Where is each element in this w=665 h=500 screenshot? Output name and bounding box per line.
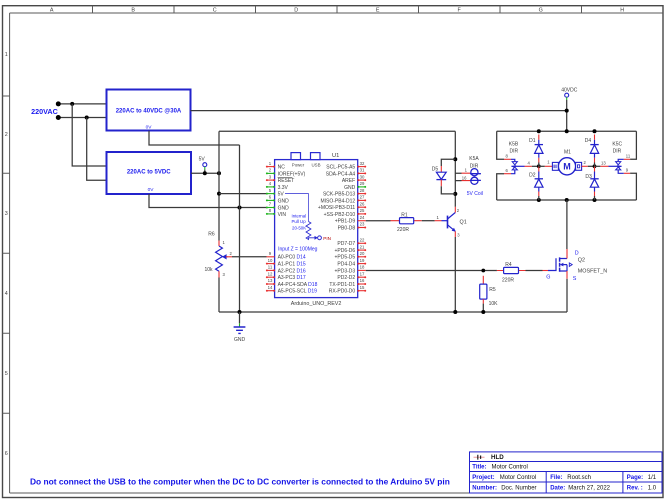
svg-text:+MOSI-PB3-D11: +MOSI-PB3-D11 bbox=[318, 205, 355, 211]
svg-text:23: 23 bbox=[360, 222, 365, 227]
wire bridge right edge upper bbox=[630, 131, 636, 159]
svg-text:D: D bbox=[575, 250, 579, 256]
svg-text:3.3V: 3.3V bbox=[278, 185, 289, 191]
svg-text:10k: 10k bbox=[204, 267, 213, 273]
U1 right pin numbers upper bbox=[360, 161, 365, 227]
svg-text:31: 31 bbox=[360, 168, 365, 173]
junction bottom rail center bbox=[565, 198, 569, 202]
svg-text:PIN: PIN bbox=[323, 236, 331, 241]
wire bridge left edge upper bbox=[497, 131, 504, 159]
svg-text:K5B: K5B bbox=[509, 142, 519, 148]
wire K5B common to bridge mid-left bbox=[532, 165, 539, 167]
svg-text:D4: D4 bbox=[585, 138, 592, 144]
svg-text:13: 13 bbox=[268, 278, 273, 283]
svg-text:26: 26 bbox=[360, 201, 365, 206]
svg-text:DIR: DIR bbox=[509, 149, 518, 155]
svg-text:D2: D2 bbox=[529, 173, 536, 179]
svg-text:IOREF(+5V): IOREF(+5V) bbox=[278, 171, 306, 177]
svg-text:A5-PC5-SCL D19: A5-PC5-SCL D19 bbox=[278, 289, 318, 295]
svg-text:20-50K: 20-50K bbox=[292, 226, 306, 231]
svg-text:A1-PC1 D15: A1-PC1 D15 bbox=[278, 262, 306, 268]
wire 220VAC line bottom bbox=[58, 117, 106, 119]
svg-text:Doc. Number: Doc. Number bbox=[501, 486, 536, 492]
svg-text:G: G bbox=[539, 7, 543, 13]
svg-text:SCL-PC5-A5: SCL-PC5-A5 bbox=[326, 165, 355, 171]
svg-text:11: 11 bbox=[626, 154, 631, 159]
resistor R1 220R bbox=[391, 212, 422, 233]
node terminal dot L2 bbox=[56, 115, 61, 120]
diode D1 bbox=[529, 135, 543, 167]
U1 right pin stubs rows 1-10 bbox=[358, 167, 366, 228]
junction emitter at gnd rail bbox=[453, 310, 457, 314]
svg-text:11: 11 bbox=[268, 265, 273, 270]
svg-text:+PD6-D6: +PD6-D6 bbox=[334, 248, 355, 254]
junction top rail 40VDC bbox=[565, 129, 569, 133]
junction on bottom line bbox=[85, 116, 89, 120]
svg-text:K5A: K5A bbox=[469, 156, 479, 162]
wire pin18 to R4 bbox=[366, 270, 497, 272]
svg-text:A3-PC3 D17: A3-PC3 D17 bbox=[278, 275, 306, 281]
junction bottom rail D2 bbox=[537, 198, 541, 202]
relay coil K5A bbox=[455, 156, 483, 197]
svg-text:S: S bbox=[573, 276, 577, 282]
svg-text:5: 5 bbox=[5, 371, 8, 377]
diode D4 bbox=[585, 135, 599, 167]
U1 left pin numbers 1-8 bbox=[269, 161, 272, 213]
svg-text:E: E bbox=[376, 7, 380, 13]
svg-text:K5C: K5C bbox=[612, 142, 622, 148]
svg-text:PD7-D7: PD7-D7 bbox=[337, 241, 355, 247]
svg-text:D5: D5 bbox=[432, 167, 439, 173]
svg-text:R5: R5 bbox=[489, 287, 496, 293]
power port 5V bbox=[199, 157, 207, 174]
svg-text:32: 32 bbox=[360, 161, 365, 166]
svg-text:Page:: Page: bbox=[627, 475, 643, 481]
wire Q1 collector bbox=[454, 194, 456, 207]
U1 left pin names bbox=[278, 165, 306, 218]
svg-text:File:: File: bbox=[550, 475, 562, 481]
svg-text:R6: R6 bbox=[208, 232, 215, 238]
title block logo bbox=[474, 455, 485, 460]
svg-text:Do not connect the USB to the: Do not connect the USB to the computer w… bbox=[30, 476, 450, 486]
U1 left pin stubs 9-14 bbox=[267, 257, 275, 291]
junction top rail D4 bbox=[593, 129, 597, 133]
svg-text:+PB1-D9: +PB1-D9 bbox=[335, 219, 356, 225]
svg-text:GND: GND bbox=[344, 185, 356, 191]
motor M1 bbox=[539, 150, 595, 175]
svg-text:220R: 220R bbox=[502, 277, 514, 283]
svg-text:20: 20 bbox=[360, 251, 365, 256]
svg-text:15: 15 bbox=[360, 285, 365, 290]
relay contact K5C bbox=[595, 142, 631, 174]
svg-text:25: 25 bbox=[360, 208, 365, 213]
svg-text:Q2: Q2 bbox=[578, 257, 585, 263]
title block bbox=[470, 452, 663, 493]
svg-text:A0-PC0 D14: A0-PC0 D14 bbox=[278, 255, 306, 261]
svg-text:PB0-D8: PB0-D8 bbox=[338, 225, 356, 231]
svg-text:H: H bbox=[620, 7, 624, 13]
svg-text:0V: 0V bbox=[148, 187, 155, 193]
wire R4 to Q2 gate bbox=[526, 270, 543, 272]
U1 left pin stubs 1-8 bbox=[267, 167, 275, 214]
converter box2 220AC to 5VDC bbox=[107, 152, 192, 194]
svg-text:220R: 220R bbox=[397, 227, 409, 233]
svg-text:Motor Control: Motor Control bbox=[500, 475, 536, 481]
svg-text:Number:: Number: bbox=[472, 486, 497, 492]
junction on top line bbox=[70, 102, 74, 106]
wire box2 0V to arduino gnd rail bbox=[149, 194, 267, 208]
wire bridge center down to Q2 drain bbox=[566, 200, 568, 249]
svg-text:18: 18 bbox=[360, 265, 365, 270]
mosfet Q2 bbox=[546, 249, 607, 312]
svg-text:22: 22 bbox=[360, 238, 365, 243]
wire box1 40VDC output bbox=[191, 110, 567, 112]
svg-text:4: 4 bbox=[5, 291, 8, 297]
svg-text:16: 16 bbox=[462, 175, 467, 180]
resistor R4 220R bbox=[497, 262, 526, 283]
svg-text:HLD: HLD bbox=[491, 454, 504, 461]
wire 220VAC line top bbox=[58, 103, 106, 105]
svg-text:GND: GND bbox=[278, 198, 290, 204]
svg-text:1: 1 bbox=[5, 52, 8, 58]
svg-text:3: 3 bbox=[5, 211, 8, 217]
relay contact K5B bbox=[504, 142, 532, 174]
svg-text:A2-PC2 D16: A2-PC2 D16 bbox=[278, 268, 306, 274]
svg-text:M1: M1 bbox=[564, 150, 571, 156]
wire pot wiper to arduino A0 bbox=[232, 256, 267, 258]
junction relay node top bbox=[453, 157, 457, 161]
svg-text:C: C bbox=[213, 7, 217, 13]
wire Q1 emitter to gnd rail bbox=[454, 231, 456, 237]
wire drop to box2 input2 bbox=[87, 118, 107, 181]
title block text row2 bbox=[472, 465, 528, 471]
junction 5V bus pin5 branch bbox=[217, 192, 221, 196]
svg-text:GND: GND bbox=[278, 205, 290, 211]
svg-text:A4-PC4-SDA D18: A4-PC4-SDA D18 bbox=[278, 282, 318, 288]
svg-text:SDA-PC4-A4: SDA-PC4-A4 bbox=[326, 171, 356, 177]
svg-text:RX-PD0-D0: RX-PD0-D0 bbox=[329, 289, 356, 295]
diode D3 bbox=[585, 166, 598, 200]
svg-text:Power: Power bbox=[292, 162, 305, 167]
svg-text:27: 27 bbox=[360, 195, 365, 200]
svg-text:R1: R1 bbox=[401, 212, 408, 218]
junction mid-right node bbox=[593, 164, 597, 168]
diode D2 bbox=[529, 166, 543, 200]
wire bridge bottom rail bbox=[497, 199, 637, 201]
svg-text:VIN: VIN bbox=[278, 212, 287, 218]
svg-text:0V: 0V bbox=[146, 125, 153, 131]
svg-text:12: 12 bbox=[268, 271, 273, 276]
svg-text:30: 30 bbox=[360, 174, 365, 179]
resistor R5 10K bbox=[480, 276, 498, 312]
svg-text:DIR: DIR bbox=[613, 149, 622, 155]
svg-text:+PD3-D3: +PD3-D3 bbox=[334, 268, 355, 274]
wire bridge top rail bbox=[497, 130, 637, 132]
svg-text:1/1: 1/1 bbox=[648, 475, 657, 481]
power port 40VDC bbox=[561, 88, 578, 132]
svg-text:1.0: 1.0 bbox=[648, 486, 657, 492]
U1 internal pull-up annotation bbox=[285, 194, 331, 241]
U1 right pin stubs lower rows 22-15 bbox=[358, 243, 366, 290]
svg-text:TX-PD1-D1: TX-PD1-D1 bbox=[329, 282, 355, 288]
junction 5V stem bbox=[203, 171, 207, 175]
ground symbol bbox=[234, 312, 246, 343]
svg-text:220AC to 40VDC @30A: 220AC to 40VDC @30A bbox=[116, 109, 182, 115]
svg-text:Title:: Title: bbox=[472, 465, 486, 471]
svg-text:NC: NC bbox=[278, 165, 286, 171]
svg-text:13: 13 bbox=[601, 160, 606, 165]
svg-text:A: A bbox=[50, 7, 54, 13]
svg-text:M: M bbox=[563, 162, 571, 172]
U1 right pin names upper bbox=[318, 165, 356, 232]
junction 40VDC at box1 output bbox=[565, 109, 569, 113]
junction bottom rail D3 bbox=[593, 198, 597, 202]
svg-text:R4: R4 bbox=[505, 262, 512, 268]
svg-text:19: 19 bbox=[360, 258, 365, 263]
junction R5 branch bbox=[481, 269, 485, 273]
potentiometer R6 bbox=[204, 232, 232, 312]
title block text row4 bbox=[472, 486, 657, 492]
U1 left pin dots bbox=[266, 166, 275, 182]
wire bridge right edge lower bbox=[630, 173, 636, 200]
svg-text:21: 21 bbox=[360, 244, 365, 249]
svg-text:USB: USB bbox=[311, 162, 320, 167]
svg-text:AREF: AREF bbox=[342, 178, 355, 184]
svg-text:5V: 5V bbox=[199, 157, 206, 163]
svg-text:16: 16 bbox=[360, 278, 365, 283]
svg-text:D1: D1 bbox=[529, 138, 536, 144]
svg-text:PD2-D2: PD2-D2 bbox=[337, 275, 355, 281]
wire gnd rail bottom bbox=[219, 311, 567, 313]
wire pin24 to R1 bbox=[366, 220, 391, 222]
junction relay node bottom bbox=[453, 192, 457, 196]
svg-text:24: 24 bbox=[360, 215, 365, 220]
junction 5V bus bbox=[217, 171, 221, 175]
svg-text:B: B bbox=[131, 7, 135, 13]
junction R5 at gnd rail bbox=[481, 310, 485, 314]
svg-text:10: 10 bbox=[268, 258, 273, 263]
svg-text:17: 17 bbox=[360, 271, 365, 276]
wire box2 5V output bbox=[191, 172, 219, 174]
title block text row3 bbox=[472, 475, 657, 481]
svg-text:Internal: Internal bbox=[292, 213, 307, 218]
svg-text:G: G bbox=[546, 275, 550, 281]
svg-text:PD4-D4: PD4-D4 bbox=[337, 262, 355, 268]
svg-text:10K: 10K bbox=[489, 301, 499, 307]
svg-text:2: 2 bbox=[5, 132, 8, 138]
svg-text:D: D bbox=[294, 7, 298, 13]
svg-text:5V: 5V bbox=[278, 192, 285, 198]
svg-text:SCK-PB5-D13: SCK-PB5-D13 bbox=[323, 192, 355, 198]
svg-text:+SS-PB2-D10: +SS-PB2-D10 bbox=[324, 212, 356, 218]
svg-text:220VAC: 220VAC bbox=[31, 107, 58, 116]
svg-text:+PD5-D5: +PD5-D5 bbox=[334, 255, 355, 261]
svg-text:Date:: Date: bbox=[550, 486, 565, 492]
svg-text:28: 28 bbox=[360, 188, 365, 193]
svg-text:MOSFET_N: MOSFET_N bbox=[578, 268, 607, 274]
RESET overline bbox=[278, 176, 293, 178]
svg-text:GND: GND bbox=[234, 337, 246, 343]
svg-text:Q1: Q1 bbox=[460, 219, 467, 225]
svg-text:U1: U1 bbox=[332, 153, 339, 159]
wire gnd drop vertical bbox=[239, 145, 241, 312]
svg-text:Root.sch: Root.sch bbox=[567, 475, 591, 481]
svg-text:220AC to 5VDC: 220AC to 5VDC bbox=[127, 170, 171, 176]
svg-text:Pull Up: Pull Up bbox=[292, 219, 307, 224]
svg-text:14: 14 bbox=[268, 285, 273, 290]
transistor Q1 bbox=[442, 208, 467, 238]
wire R1 to Q1 base bbox=[422, 220, 435, 222]
svg-text:Rev. :: Rev. : bbox=[627, 486, 643, 492]
wire drop to box2 input1 bbox=[72, 104, 106, 166]
svg-text:6: 6 bbox=[5, 451, 8, 457]
junction gnd drop bbox=[238, 206, 242, 210]
junction mid-left node bbox=[537, 164, 541, 168]
junction top rail D1 bbox=[537, 129, 541, 133]
op-amp substitute: Arduino U1 body bbox=[275, 153, 358, 308]
wire bridge left edge lower bbox=[497, 174, 504, 200]
junction gnd rail at drop bbox=[238, 310, 242, 314]
diode D5 bbox=[432, 159, 456, 194]
wire relay node vertical bbox=[454, 131, 456, 194]
wire 5V bus vertical bbox=[218, 131, 220, 240]
node terminal dot L1 bbox=[56, 101, 61, 106]
svg-text:RESET: RESET bbox=[278, 178, 295, 184]
svg-text:Arduino_UNO_REV2: Arduino_UNO_REV2 bbox=[291, 301, 342, 307]
svg-text:5V Coil: 5V Coil bbox=[467, 191, 483, 197]
svg-text:Input Z = 100Meg: Input Z = 100Meg bbox=[278, 246, 318, 252]
svg-text:40VDC: 40VDC bbox=[561, 88, 578, 94]
wire 5V to relay coil run bbox=[219, 130, 455, 132]
svg-text:Project:: Project: bbox=[472, 475, 494, 481]
wire 5V to arduino pin5 bbox=[219, 193, 267, 195]
svg-text:29: 29 bbox=[360, 181, 365, 186]
svg-text:MISO-PB4-D12: MISO-PB4-D12 bbox=[320, 198, 355, 204]
U1 analog pin names bbox=[278, 255, 318, 295]
svg-text:March 27, 2022: March 27, 2022 bbox=[568, 486, 610, 492]
wire box1 0V to gnd drop bbox=[149, 131, 240, 145]
converter box1 220AC to 40VDC bbox=[107, 90, 191, 131]
svg-text:Motor Control: Motor Control bbox=[492, 465, 528, 471]
